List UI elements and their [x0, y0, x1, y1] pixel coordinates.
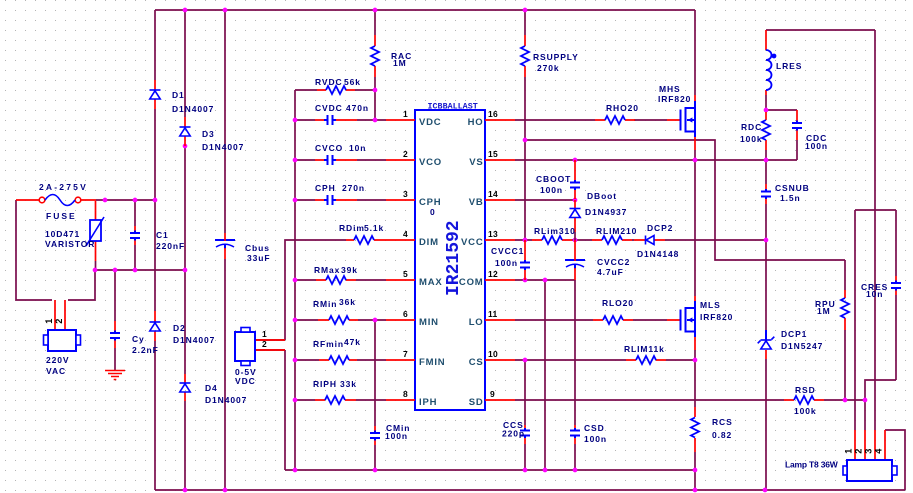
capacitor CVCC1 100n — [491, 240, 530, 280]
inductor LRES — [766, 30, 802, 95]
wire bottom ground rail y=490 — [155, 489, 905, 491]
ground 0 — [105, 371, 125, 380]
junction (185,146) — [183, 144, 188, 149]
resistor RLIM11k — [624, 344, 666, 364]
capacitor CSD 100n — [570, 423, 607, 444]
junction (575,240) — [573, 238, 578, 243]
junction (525,360) — [523, 358, 528, 363]
pin 5 MAX — [386, 269, 443, 288]
svg-text:100n: 100n — [805, 141, 828, 151]
svg-text:2A-275V: 2A-275V — [39, 182, 88, 192]
capacitor CRES 10n — [861, 276, 901, 299]
svg-text:2: 2 — [403, 149, 408, 159]
svg-text:2: 2 — [54, 318, 64, 323]
svg-text:220p: 220p — [502, 429, 525, 439]
capacitor CSNUB 1.5n — [761, 183, 810, 204]
junction (525,280) — [523, 278, 528, 283]
diode D4 D1N4007 — [180, 374, 248, 405]
wire CVCC2 CSD column x=575 — [574, 280, 576, 470]
diode DCP1 D1N5247 zener — [758, 329, 824, 359]
wire MAX row pin5 — [295, 279, 386, 281]
svg-text:0: 0 — [430, 207, 436, 217]
svg-text:100n: 100n — [540, 185, 563, 195]
junction (766,110) — [764, 108, 769, 113]
pin 9 SD — [469, 389, 515, 408]
svg-text:RDC: RDC — [741, 122, 762, 132]
svg-text:5.1k: 5.1k — [364, 223, 384, 233]
wire CSNUB column — [765, 160, 767, 240]
junction (295,200) — [293, 198, 298, 203]
pin 4 DIM — [386, 229, 439, 248]
svg-text:RCS: RCS — [712, 417, 733, 427]
diode D2 D1N4007 — [150, 311, 216, 345]
svg-text:270n: 270n — [342, 183, 365, 193]
pin 16 HO — [468, 109, 515, 128]
svg-text:100k: 100k — [794, 406, 817, 416]
fuse FUSE 2A-275V — [16, 182, 96, 221]
svg-text:MLS: MLS — [700, 300, 721, 310]
svg-text:1.5n: 1.5n — [780, 193, 801, 203]
wire varistor bottom lead — [95, 261, 97, 270]
svg-text:RMax: RMax — [314, 265, 340, 275]
junction (155,200) — [153, 198, 158, 203]
junction (695,470) — [693, 468, 698, 473]
svg-text:220nF: 220nF — [156, 241, 185, 251]
wire signal ground rail y=470 — [285, 469, 695, 471]
wire lamp pin4 to bottom rail — [885, 430, 905, 490]
op-amp U1 IR21592 ballast control IC — [415, 102, 485, 411]
svg-text:C1: C1 — [156, 230, 169, 240]
svg-text:10n: 10n — [866, 289, 883, 299]
svg-text:CS: CS — [469, 357, 484, 368]
junction (525,10) — [523, 8, 528, 13]
svg-text:100n: 100n — [495, 258, 518, 268]
svg-text:MIN: MIN — [419, 317, 439, 328]
svg-text:14: 14 — [488, 189, 498, 199]
wire RDC link down — [765, 150, 767, 160]
wire CMin column x=375 — [374, 320, 376, 470]
svg-text:LO: LO — [469, 317, 484, 328]
wire VCC aux branch y=140 — [525, 140, 845, 260]
voltage source V3 0-5V VDC — [235, 328, 285, 387]
svg-text:D1N4007: D1N4007 — [205, 395, 247, 405]
svg-text:11: 11 — [488, 309, 498, 319]
svg-text:3: 3 — [864, 448, 874, 453]
svg-text:Cy: Cy — [132, 334, 145, 344]
svg-text:9: 9 — [490, 389, 495, 399]
junction (545,280) — [543, 278, 548, 283]
diode D1 D1N4007 — [150, 80, 215, 114]
svg-text:RHO20: RHO20 — [606, 103, 639, 113]
svg-text:12: 12 — [488, 269, 498, 279]
junction (375,10) — [373, 8, 378, 13]
capacitor CBOOT 100n — [536, 160, 580, 199]
wire C1 column — [134, 200, 136, 270]
svg-text:4: 4 — [403, 229, 408, 239]
junction (375,470) — [373, 468, 378, 473]
wire MLS drain column — [694, 160, 696, 296]
junction (375,320) — [373, 318, 378, 323]
junction (845,400) — [843, 398, 848, 403]
svg-text:VDC: VDC — [235, 376, 256, 386]
resistor RMax 39k — [314, 265, 358, 284]
svg-text:DIM: DIM — [419, 237, 439, 248]
pin 10 CS — [469, 349, 515, 368]
pin 13 VCC — [461, 229, 515, 248]
wire CRES top link y=210 — [855, 209, 896, 211]
svg-text:RDim: RDim — [339, 223, 365, 233]
svg-text:100k: 100k — [740, 134, 763, 144]
pin 1 VDC — [386, 109, 441, 128]
svg-text:FMIN: FMIN — [419, 357, 445, 368]
resistor RVDC 56k — [315, 77, 361, 94]
resistor RAC 1M — [371, 35, 412, 77]
svg-text:100n: 100n — [584, 434, 607, 444]
svg-text:10n: 10n — [349, 143, 366, 153]
svg-text:RLIM11k: RLIM11k — [624, 344, 665, 354]
resistor RSD 100k — [784, 385, 824, 416]
resistor RDC 100k — [740, 112, 770, 150]
capacitor CMin 100n — [370, 423, 410, 445]
svg-text:MHS: MHS — [659, 84, 681, 94]
svg-text:5: 5 — [403, 269, 408, 279]
svg-text:RLO20: RLO20 — [602, 298, 634, 308]
capacitor Cbus 33uF — [215, 233, 270, 263]
svg-text:RIPH: RIPH — [313, 379, 337, 389]
svg-text:2: 2 — [262, 339, 267, 349]
wire CS row pin10 RLIM11k — [515, 359, 695, 361]
junction (295,360) — [293, 358, 298, 363]
svg-text:8: 8 — [403, 389, 408, 399]
svg-text:13: 13 — [488, 229, 498, 239]
svg-text:CVDC: CVDC — [315, 103, 343, 113]
svg-text:39k: 39k — [341, 265, 358, 275]
junction (295,320) — [293, 318, 298, 323]
svg-text:4: 4 — [874, 448, 884, 454]
svg-text:RMin: RMin — [313, 299, 337, 309]
svg-text:270k: 270k — [537, 63, 560, 73]
svg-text:0.82: 0.82 — [712, 430, 732, 440]
svg-text:DCP1: DCP1 — [781, 329, 807, 339]
junction (765,490) — [763, 488, 768, 493]
svg-text:SD: SD — [469, 397, 484, 408]
transistor MHS IRF820 — [658, 84, 695, 150]
wire CRES column x=896 — [895, 210, 897, 380]
svg-text:IRF820: IRF820 — [658, 94, 691, 104]
svg-text:33k: 33k — [340, 379, 357, 389]
junction (105,200) — [103, 198, 108, 203]
capacitor CDC 100n — [792, 110, 828, 151]
junction (525,470) — [523, 468, 528, 473]
svg-text:6: 6 — [403, 309, 408, 319]
diode DCP2 D1N4148 — [634, 223, 679, 259]
svg-text:7: 7 — [403, 349, 408, 359]
svg-text:1: 1 — [262, 329, 267, 339]
svg-text:4.7uF: 4.7uF — [597, 267, 624, 277]
pin 12 COM — [459, 269, 515, 288]
wire IPH row pin8 — [295, 399, 386, 401]
diode D3 D1N4007 — [180, 117, 245, 152]
wire DCP1 column x=766 — [765, 240, 767, 490]
svg-text:Cbus: Cbus — [245, 243, 270, 253]
junction (375,90) — [373, 88, 378, 93]
svg-text:CBOOT: CBOOT — [536, 174, 571, 184]
svg-text:D1N4007: D1N4007 — [202, 142, 244, 152]
wire MIN row pin6 — [295, 319, 386, 321]
pin 11 LO — [469, 309, 515, 328]
junction (695,160) — [693, 158, 698, 163]
junction (695,490) — [693, 488, 698, 493]
capacitor CVCO 10n — [315, 143, 366, 165]
junction (525,140) — [523, 138, 528, 143]
wire LO row pin11 to RLO20 to MLS gate — [515, 319, 667, 321]
wire SD row pin9 to RSD — [515, 399, 865, 401]
svg-text:LRES: LRES — [776, 61, 802, 71]
svg-text:2: 2 — [854, 448, 864, 453]
wire lamp pin1 column x=855 — [854, 210, 856, 430]
svg-text:VCC: VCC — [461, 237, 483, 248]
junction (766,160) — [764, 158, 769, 163]
svg-text:3: 3 — [403, 189, 408, 199]
svg-text:10: 10 — [488, 349, 498, 359]
svg-text:16: 16 — [488, 109, 498, 119]
wire DIM row pin4 from 0-5V source — [255, 240, 346, 340]
junction (545,470) — [543, 468, 548, 473]
pin 3 CPH — [386, 189, 441, 217]
svg-text:1M: 1M — [393, 58, 407, 68]
wire AC source pin2 to varistor node — [68, 271, 95, 300]
wire left bus x=295 — [294, 90, 296, 470]
diode DBoot D1N4937 — [570, 191, 628, 240]
svg-text:IPH: IPH — [419, 397, 437, 408]
svg-text:IRF820: IRF820 — [700, 312, 733, 322]
pin 8 IPH — [386, 389, 437, 408]
wire 0-5V source pin2 to signal ground — [256, 350, 285, 470]
varistor 10D471 — [45, 201, 104, 261]
svg-text:VS: VS — [469, 157, 483, 168]
wire CRES bottom to SD net — [865, 380, 896, 400]
junction (575,160) — [573, 158, 578, 163]
wire FMIN row pin7 — [295, 359, 386, 361]
junction (185,270) — [183, 268, 188, 273]
resistor RLIM210 — [592, 226, 637, 244]
svg-text:DBoot: DBoot — [587, 191, 617, 201]
wire VS row pin15 half bridge — [515, 159, 797, 161]
svg-text:CSNUB: CSNUB — [775, 183, 810, 193]
junction (185,10) — [183, 8, 188, 13]
pin 7 FMIN — [386, 349, 445, 368]
pin 14 VB — [469, 189, 515, 208]
junction (295,470) — [293, 468, 298, 473]
svg-text:ICBBALLAST: ICBBALLAST — [428, 102, 478, 112]
pin 2 VCO — [386, 149, 442, 168]
voltage source V1 220V VAC — [44, 300, 81, 376]
wire RVDC branch y=90 — [295, 89, 375, 91]
resistor RFmin 47k — [313, 337, 361, 364]
svg-text:VB: VB — [469, 197, 484, 208]
junction (225,10) — [223, 8, 228, 13]
junction (115,270) — [113, 268, 118, 273]
svg-text:D1N5247: D1N5247 — [781, 341, 823, 351]
svg-text:CVCC1: CVCC1 — [491, 246, 524, 256]
svg-text:FUSE: FUSE — [46, 211, 77, 221]
svg-text:COM: COM — [459, 277, 484, 288]
svg-text:D1N4148: D1N4148 — [637, 249, 679, 259]
resistor RIPH 33k — [313, 379, 357, 404]
wire Cy column — [114, 270, 116, 321]
svg-text:D1: D1 — [172, 90, 185, 100]
lamp Lamp T8 36W — [785, 430, 897, 481]
pin 15 VS — [469, 149, 515, 168]
svg-text:1M: 1M — [817, 306, 831, 316]
resistor RLO20 — [593, 298, 634, 324]
junction (525,240) — [523, 238, 528, 243]
pin 6 MIN — [386, 309, 439, 328]
wire MLS source to CS node — [694, 350, 696, 360]
junction (185,490) — [183, 488, 188, 493]
junction (375,120) — [373, 118, 378, 123]
wire VCC row pin13 RLim310 RLIM210 DCP2 — [515, 239, 766, 241]
wire AC source loop left — [16, 200, 52, 300]
capacitor Cy 2.2nF — [110, 321, 159, 370]
svg-text:VAC: VAC — [46, 366, 66, 376]
wire AC column x=185 — [184, 10, 186, 490]
svg-text:1: 1 — [44, 318, 54, 323]
capacitor CVDC 470n — [315, 103, 369, 125]
resistor RPU 1M — [815, 290, 849, 330]
resistor RDim 5.1k — [339, 223, 386, 244]
resistor RSUPPLY 270k — [521, 35, 579, 77]
wire fuse net y=200 — [96, 199, 155, 201]
wire VCO row pin2 — [295, 159, 386, 161]
svg-text:RVDC: RVDC — [315, 77, 343, 87]
svg-text:470n: 470n — [346, 103, 369, 113]
wire LRES bottom node — [765, 95, 767, 110]
svg-text:D1N4007: D1N4007 — [173, 335, 215, 345]
wire COM row pin12 — [515, 279, 575, 281]
wire MHS source to VS node — [694, 150, 696, 160]
svg-text:CPH: CPH — [315, 183, 336, 193]
svg-text:47k: 47k — [344, 337, 361, 347]
resistor RHO20 — [595, 103, 639, 124]
svg-text:100n: 100n — [385, 431, 408, 441]
wire RCS column x=695 — [694, 360, 696, 490]
svg-text:10D471: 10D471 — [45, 229, 80, 239]
svg-text:56k: 56k — [344, 77, 361, 87]
junction (575,200) — [573, 198, 578, 203]
wire RPU column x=845 — [844, 260, 846, 400]
svg-text:36k: 36k — [339, 297, 356, 307]
svg-text:D1N4007: D1N4007 — [172, 104, 214, 114]
svg-text:HO: HO — [468, 117, 484, 128]
wire left AC column x=155 — [154, 10, 156, 490]
junction (295,160) — [293, 158, 298, 163]
wire RAC column x=375 — [374, 10, 376, 120]
wire lamp pin2 column — [864, 400, 866, 430]
svg-text:MAX: MAX — [419, 277, 443, 288]
svg-text:D3: D3 — [202, 129, 215, 139]
junction (225,490) — [223, 488, 228, 493]
wire AC neutral rail y=270 — [95, 269, 185, 271]
svg-text:2.2nF: 2.2nF — [132, 345, 159, 355]
wire HO row pin16 to RHO20 to MHS gate — [515, 119, 667, 121]
junction (695,360) — [693, 358, 698, 363]
svg-text:VARISTOR: VARISTOR — [45, 239, 95, 249]
junction (95,270) — [93, 268, 98, 273]
capacitor CVCC2 4.7uF — [565, 240, 630, 280]
wire RSUPPLY column x=525 — [524, 10, 526, 240]
junction (865,400) — [863, 398, 868, 403]
junction (575,470) — [573, 468, 578, 473]
transistor MLS IRF820 — [667, 296, 733, 350]
svg-text:D4: D4 — [205, 383, 218, 393]
svg-text:CSD: CSD — [584, 423, 605, 433]
capacitor CPH 270n — [315, 183, 365, 205]
junction (766,240) — [764, 238, 769, 243]
wire CPH row pin3 — [295, 199, 386, 201]
capacitor C1 220nF — [130, 226, 185, 251]
resistor RLim310 — [532, 226, 576, 244]
svg-text:RFmin: RFmin — [313, 339, 344, 349]
wire VDC row pin1 — [295, 119, 386, 121]
svg-text:CVCC2: CVCC2 — [597, 257, 630, 267]
svg-text:VDC: VDC — [419, 117, 441, 128]
svg-text:220V: 220V — [46, 355, 69, 365]
svg-text:D1N4937: D1N4937 — [585, 207, 627, 217]
svg-text:D2: D2 — [173, 323, 186, 333]
resistor RMin 36k — [313, 297, 358, 324]
junction (295,280) — [293, 278, 298, 283]
wire LRES top link — [766, 29, 875, 31]
wire rectified DC top rail — [155, 9, 695, 11]
junction (295,120) — [293, 118, 298, 123]
wire CCS column x=525 — [524, 360, 526, 470]
svg-text:RSUPPLY: RSUPPLY — [533, 52, 579, 62]
wire MHS drain from top rail — [694, 10, 696, 95]
wire bus cap column x=225 — [224, 10, 226, 490]
svg-text:1: 1 — [403, 109, 408, 119]
svg-text:CVCO: CVCO — [315, 143, 343, 153]
resistor RCS 0.82 — [691, 407, 733, 452]
svg-text:DCP2: DCP2 — [647, 223, 673, 233]
junction (135,200) — [133, 198, 138, 203]
svg-text:RLim310: RLim310 — [534, 226, 576, 236]
svg-text:RLIM210: RLIM210 — [596, 226, 637, 236]
wire COM ground column x=545 — [544, 280, 546, 470]
capacitor CCS 220p — [502, 420, 530, 444]
svg-text:RSD: RSD — [795, 385, 816, 395]
junction (295,400) — [293, 398, 298, 403]
wire VB row pin14 — [515, 199, 575, 201]
svg-text:33uF: 33uF — [247, 253, 270, 263]
svg-text:15: 15 — [488, 149, 498, 159]
junction (135,270) — [133, 268, 138, 273]
svg-text:1: 1 — [844, 448, 854, 453]
wire CDC branch — [766, 110, 797, 160]
wire lamp pin3 column x=875 — [874, 30, 876, 430]
svg-text:VCO: VCO — [419, 157, 442, 168]
svg-text:Lamp T8 36W: Lamp T8 36W — [785, 460, 839, 470]
